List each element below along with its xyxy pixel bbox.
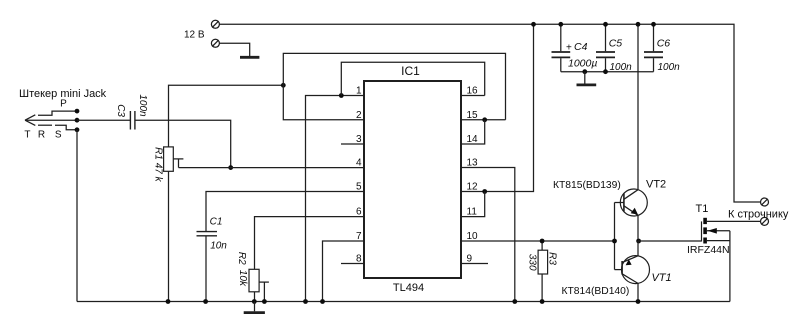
svg-text:10k: 10k: [237, 270, 248, 287]
svg-text:IC1: IC1: [401, 64, 420, 78]
junction cap bus C5: [603, 69, 608, 74]
wire +12V top rail: [220, 24, 761, 202]
wire VT2 base: [615, 202, 624, 204]
wire C1 bottom to ground rail: [205, 236, 207, 302]
svg-text:C3: C3: [115, 104, 126, 117]
svg-text:12 В: 12 В: [184, 30, 205, 41]
label KT814(BD140): [562, 286, 630, 297]
junction R3 bottom: [540, 299, 545, 304]
svg-text:R1 47 k: R1 47 k: [152, 147, 163, 182]
connector XS1 mini jack plug: [25, 111, 77, 130]
svg-text:15: 15: [467, 110, 479, 121]
svg-text:+: +: [566, 43, 572, 54]
terminal 12V minus: [211, 39, 219, 47]
pin 13 wire to ground: [461, 168, 515, 302]
label К строчнику: [728, 208, 789, 220]
svg-text:1000µ: 1000µ: [568, 58, 597, 70]
node jack tip P: [75, 109, 80, 114]
junction emitters node: [636, 239, 641, 244]
transistor T1 IRFZ44N MOSFET: [702, 218, 730, 244]
pin 3 stub: [341, 143, 364, 145]
wire bases vertical: [614, 203, 616, 270]
resistor R1 47k trimmer: [164, 147, 184, 171]
wire IC pin 6 to R2: [255, 217, 365, 270]
svg-text:T: T: [24, 129, 30, 140]
svg-text:VT1: VT1: [652, 272, 672, 284]
wire R2 bottom to ground rail: [254, 292, 256, 302]
label C6: [657, 37, 671, 49]
wire VT1 emitter up: [637, 241, 639, 256]
label C1: [210, 217, 223, 228]
label IC1: [401, 64, 420, 78]
wire jack sleeve to ground rail: [76, 130, 78, 302]
junction pin1 feedback riser: [339, 93, 344, 98]
junction VT1 collector ground: [636, 299, 641, 304]
svg-text:IRFZ44N: IRFZ44N: [687, 244, 730, 256]
junction R2 wiper: [262, 299, 267, 304]
svg-text:C1: C1: [210, 217, 223, 228]
svg-text:9: 9: [467, 254, 473, 265]
pin number labels right: [467, 86, 479, 265]
junction pin13 ground: [512, 299, 517, 304]
label KT815(BD139): [553, 180, 621, 191]
junction R2 bottom: [252, 299, 257, 304]
svg-text:R: R: [38, 129, 45, 140]
svg-text:3: 3: [356, 134, 362, 145]
label 12 В: [184, 30, 205, 41]
wire C3 to pin4 net: [135, 120, 231, 167]
svg-text:T1: T1: [696, 203, 709, 215]
svg-text:КТ815(BD139): КТ815(BD139): [553, 180, 621, 191]
svg-text:КТ814(BD140): КТ814(BD140): [562, 286, 630, 297]
pin 12 wire VCC: [461, 24, 534, 191]
wire capacitors bottom bus: [561, 71, 654, 73]
label C5: [609, 37, 623, 49]
label TL494: [393, 282, 424, 294]
wire T1 source to ground rail: [729, 231, 731, 302]
junction R1 ground: [166, 299, 171, 304]
label 100n (C3): [137, 94, 148, 117]
label 1000µ: [568, 58, 597, 70]
junction C4 top rail: [558, 22, 563, 27]
svg-text:P: P: [60, 99, 67, 110]
capacitor C6 100n: [644, 24, 663, 71]
svg-text:10n: 10n: [210, 240, 227, 251]
junction bases node: [612, 239, 617, 244]
wire T1 drain to output terminal: [707, 220, 760, 222]
label 330: [526, 254, 537, 271]
label 10k: [237, 270, 248, 287]
wire VT2 emitter down: [637, 215, 639, 241]
svg-text:330: 330: [526, 254, 537, 271]
junction R1 top on pin2 riser: [281, 83, 286, 88]
svg-text:10: 10: [467, 231, 479, 242]
ground (capacitor bus): [577, 72, 597, 85]
label IRFZ44N: [687, 244, 730, 256]
wire emitters to gate: [638, 240, 702, 242]
label VT2: [646, 179, 666, 191]
resistor R3 330: [538, 241, 548, 302]
wire jack ring to C3: [77, 119, 130, 121]
ground (below R2): [244, 302, 265, 313]
pin 8 stub: [341, 263, 364, 265]
label R1 47 k: [152, 147, 163, 182]
svg-text:2: 2: [356, 110, 362, 121]
wire R1 wiper to IC pin 4: [179, 167, 365, 169]
svg-text:1: 1: [356, 86, 362, 97]
wire R1 top to pin2 riser: [169, 85, 284, 147]
svg-text:7: 7: [356, 231, 362, 242]
svg-text:R2: R2: [236, 252, 247, 265]
junction C1 ground: [203, 299, 208, 304]
label + C4: [566, 41, 588, 54]
svg-text:8: 8: [356, 254, 362, 265]
svg-text:6: 6: [356, 207, 362, 218]
junction pin1 ground: [303, 299, 308, 304]
svg-text:C4: C4: [574, 41, 588, 53]
junction C5 top rail: [603, 22, 608, 27]
svg-text:C5: C5: [609, 37, 623, 49]
label 100n (C6): [658, 62, 681, 73]
svg-text:13: 13: [467, 158, 479, 169]
pin 1 wire: [306, 96, 365, 302]
capacitor C3: [130, 111, 135, 130]
resistor R2 10k trimmer: [249, 269, 269, 301]
pin 2 wire: [283, 53, 505, 119]
svg-text:5: 5: [356, 182, 362, 193]
svg-text:100n: 100n: [137, 94, 148, 117]
pin 16 wire: [461, 95, 485, 97]
transistor VT2 KT815 NPN: [620, 189, 647, 216]
wire pin1 to pin16 link: [341, 62, 484, 95]
label R2: [236, 252, 247, 265]
pin 11 wire: [461, 192, 485, 217]
pin 15 wire: [461, 119, 506, 121]
junction VT2 collector top rail: [636, 22, 641, 27]
junction pin7 ground: [320, 299, 325, 304]
junction cap bus ground: [582, 69, 587, 74]
wire 12V minus to ground: [220, 43, 250, 56]
label VT1: [652, 272, 672, 284]
label R3: [547, 252, 558, 265]
label Штекер mini Jack: [19, 88, 107, 140]
wire VT1 base: [615, 269, 623, 271]
wire R1 bottom to ground rail: [168, 171, 170, 301]
junction C6 top rail: [651, 22, 656, 27]
terminal 12V plus: [211, 20, 219, 28]
svg-text:12: 12: [467, 182, 479, 193]
svg-text:R3: R3: [547, 252, 558, 265]
junction VCC top rail: [531, 22, 536, 27]
ground (12V input): [240, 56, 259, 59]
svg-text:S: S: [55, 129, 62, 140]
svg-text:К строчнику: К строчнику: [728, 208, 789, 220]
wire VT1 collector to ground: [637, 283, 639, 301]
junction pin12/pin11: [482, 189, 487, 194]
svg-text:11: 11: [467, 207, 478, 218]
wire VT2 collector to +12V: [637, 24, 639, 189]
terminal output bottom: [761, 217, 769, 225]
wire IC pin 5 to C1: [206, 192, 364, 232]
label 10n: [210, 240, 227, 251]
label T1: [696, 203, 709, 215]
pin 7 wire to ground: [323, 241, 365, 302]
terminal output top: [761, 198, 769, 206]
svg-text:14: 14: [467, 134, 479, 145]
pin number labels left: [356, 86, 362, 265]
junction C3/R1 wiper to pin 4: [228, 165, 233, 170]
pin 14 wire: [461, 120, 485, 144]
svg-text:100n: 100n: [658, 62, 681, 73]
pin 9 stub: [461, 263, 488, 265]
transistor VT1 KT814 PNP: [622, 256, 650, 284]
svg-text:VT2: VT2: [646, 179, 666, 191]
svg-text:TL494: TL494: [393, 282, 424, 294]
capacitor C5 100n: [596, 24, 615, 71]
node jack ring R: [75, 118, 80, 123]
label C3: [115, 104, 126, 117]
node jack sleeve S: [75, 127, 80, 132]
junction pin15/pin14: [482, 117, 487, 122]
svg-text:4: 4: [356, 158, 362, 169]
svg-text:C6: C6: [657, 37, 671, 49]
junction R3 top: [540, 239, 545, 244]
svg-text:16: 16: [467, 86, 479, 97]
pin 10 wire output: [461, 240, 615, 242]
capacitor C1: [197, 232, 218, 236]
wire ground bottom rail: [77, 301, 730, 303]
capacitor C4 1000u electrolytic: [552, 24, 571, 71]
IC U1 TL494 body: [364, 81, 461, 278]
label 100n (C5): [610, 62, 633, 73]
